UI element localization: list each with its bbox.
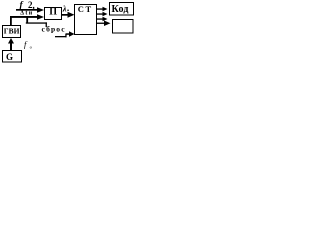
svg-text:λ: λ (62, 4, 67, 14)
comma after 2 (33, 7, 34, 9)
box former (GVI) (3, 26, 21, 38)
wire input f2 arrow line (16, 9, 38, 11)
wire reset drop (46, 22, 47, 27)
gate box U1 (AND) (45, 8, 62, 20)
wire reset horizontal upper (26, 22, 47, 23)
counter output arrow 2 (97, 13, 103, 14)
svg-text:2: 2 (28, 0, 33, 10)
svg-text:Δtи: Δtи (20, 11, 33, 17)
wire reset horizontal lower (55, 36, 67, 37)
display box (empty) (113, 20, 134, 34)
wire riser from former box top (10, 17, 12, 26)
generator box G (3, 51, 22, 63)
wire reset branch riser (26, 17, 28, 23)
svg-text:ГВИ: ГВИ (4, 26, 20, 35)
svg-text:Код: Код (112, 4, 129, 15)
wire strobe line from former to gate (10, 16, 38, 18)
arrowhead reset into counter (69, 31, 75, 36)
counter output arrow 3 (97, 18, 103, 19)
wire gate to counter (62, 14, 69, 16)
svg-text:сброс: сброс (42, 25, 66, 34)
dot after lambda label (67, 10, 68, 11)
wire riser generator to former (10, 42, 12, 51)
counter output arrow 1 (97, 8, 103, 9)
counter output arrow 4 to display box (97, 23, 105, 24)
arrowhead up into former box (8, 38, 14, 44)
svg-text:П: П (49, 7, 57, 18)
wire reset into counter (66, 33, 70, 35)
counter box CT (75, 5, 97, 35)
svg-text:СТ: СТ (78, 4, 93, 14)
wire reset up jog (65, 34, 66, 38)
arrowhead into counter (68, 12, 75, 18)
code box (Kod) (110, 3, 134, 16)
arrowhead into gate U1 top input (37, 7, 44, 13)
svg-text:G: G (6, 52, 13, 62)
arrowhead strobe into gate U1 (37, 14, 44, 20)
